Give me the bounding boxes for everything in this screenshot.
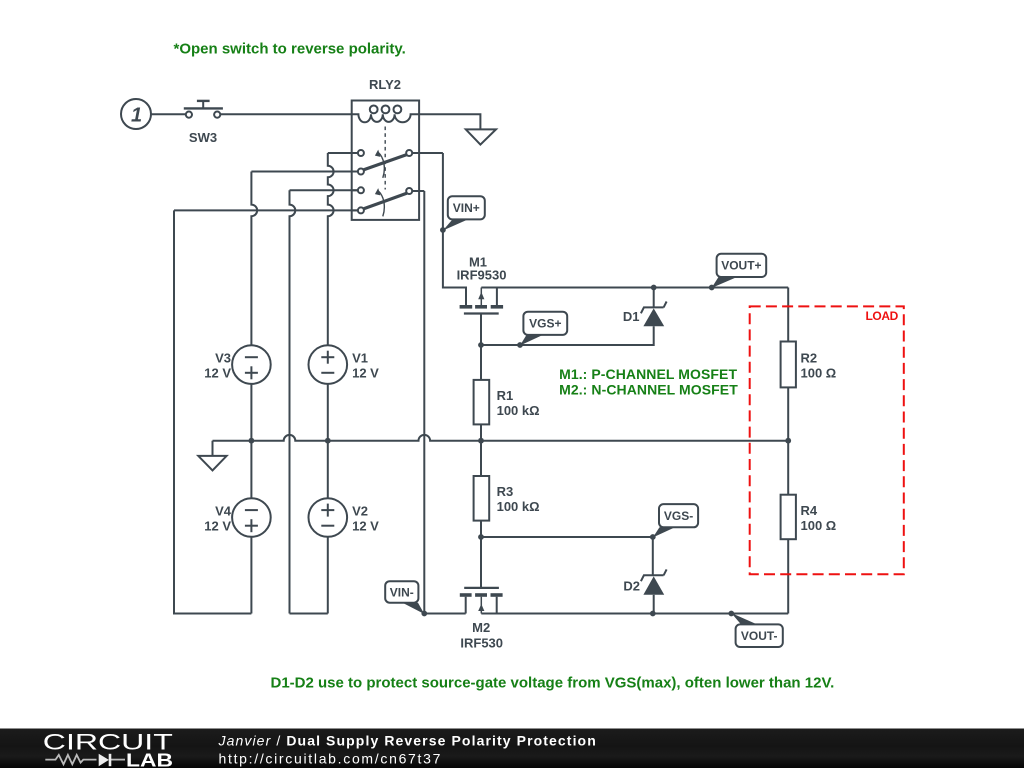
svg-text:LAB: LAB — [126, 750, 173, 768]
svg-text:R4: R4 — [801, 503, 818, 518]
svg-text:D2: D2 — [623, 579, 640, 594]
svg-text:12 V: 12 V — [352, 366, 379, 381]
svg-text:VGS-: VGS- — [664, 509, 693, 523]
svg-text:100 Ω: 100 Ω — [801, 366, 837, 381]
svg-text:LOAD: LOAD — [866, 309, 899, 323]
svg-text:D1: D1 — [623, 309, 640, 324]
svg-text:VOUT+: VOUT+ — [721, 259, 761, 273]
svg-text:R1: R1 — [497, 388, 514, 403]
svg-text:VGS+: VGS+ — [529, 317, 561, 331]
svg-text:V3: V3 — [215, 351, 231, 366]
svg-text:12 V: 12 V — [204, 518, 231, 533]
svg-text:100 Ω: 100 Ω — [801, 518, 837, 533]
svg-text:100 kΩ: 100 kΩ — [497, 403, 540, 418]
svg-text:1: 1 — [131, 104, 142, 126]
svg-text:12 V: 12 V — [352, 518, 379, 533]
svg-text:M1.: P-CHANNEL MOSFET: M1.: P-CHANNEL MOSFET — [559, 366, 737, 382]
svg-text:M2.: N-CHANNEL MOSFET: M2.: N-CHANNEL MOSFET — [559, 382, 738, 398]
svg-text:R2: R2 — [801, 351, 818, 366]
svg-text:Janvier / Dual Supply Reverse: Janvier / Dual Supply Reverse Polarity P… — [218, 733, 597, 749]
svg-text:IRF530: IRF530 — [460, 636, 503, 651]
svg-text:12 V: 12 V — [204, 366, 231, 381]
svg-text:IRF9530: IRF9530 — [457, 267, 507, 282]
svg-text:V1: V1 — [352, 351, 368, 366]
svg-text:VIN+: VIN+ — [453, 201, 480, 215]
svg-text:100 kΩ: 100 kΩ — [497, 499, 540, 514]
svg-text:http://circuitlab.com/cn67t37: http://circuitlab.com/cn67t37 — [219, 751, 443, 767]
svg-text:R3: R3 — [497, 484, 514, 499]
svg-text:RLY2: RLY2 — [369, 77, 401, 92]
svg-text:VOUT-: VOUT- — [741, 629, 778, 643]
svg-text:M2: M2 — [472, 620, 490, 635]
svg-text:D1-D2 use to protect source-ga: D1-D2 use to protect source-gate voltage… — [271, 674, 835, 691]
svg-text:SW3: SW3 — [189, 130, 217, 145]
svg-text:V4: V4 — [215, 503, 232, 518]
svg-text:V2: V2 — [352, 503, 368, 518]
svg-text:VIN-: VIN- — [390, 585, 414, 599]
svg-text:*Open switch to reverse polari: *Open switch to reverse polarity. — [174, 40, 406, 57]
